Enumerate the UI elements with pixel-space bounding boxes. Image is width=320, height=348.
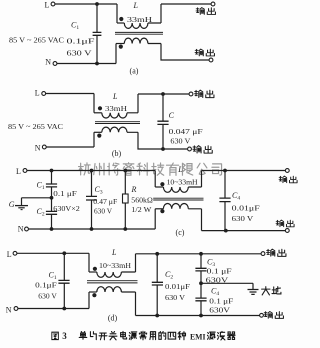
svg-text:L: L: [7, 250, 12, 259]
svg-text:0.1 μF: 0.1 μF: [209, 296, 233, 305]
svg-text:N: N: [35, 143, 41, 152]
svg-text:0.1μF: 0.1μF: [35, 281, 57, 290]
svg-text:0.1 μF: 0.1 μF: [53, 189, 77, 198]
svg-text:630 V: 630 V: [165, 293, 186, 302]
svg-text:EMI: EMI: [190, 332, 206, 342]
svg-text:85 V ~ 265 VAC: 85 V ~ 265 VAC: [8, 122, 63, 131]
svg-text:L: L: [16, 167, 21, 176]
svg-text:N: N: [6, 305, 12, 314]
svg-text:(a): (a): [130, 67, 139, 76]
svg-text:N: N: [45, 57, 51, 66]
svg-text:L: L: [177, 165, 183, 174]
svg-text:0.01μF: 0.01μF: [232, 204, 260, 213]
svg-text:(c): (c): [176, 228, 185, 237]
svg-text:0.01μF: 0.01μF: [165, 282, 190, 291]
svg-text:560kΩ: 560kΩ: [131, 195, 153, 204]
svg-text:10~33mH: 10~33mH: [167, 178, 199, 187]
svg-text:L: L: [35, 89, 40, 98]
svg-text:(d): (d): [108, 313, 118, 322]
svg-text:0.47 μF: 0.47 μF: [93, 197, 117, 206]
svg-text:(b): (b): [112, 149, 122, 158]
svg-text:L: L: [133, 1, 139, 10]
svg-text:85 V ~ 265 VAC: 85 V ~ 265 VAC: [9, 36, 64, 45]
svg-text:L: L: [45, 1, 50, 10]
svg-text:630V: 630V: [209, 306, 230, 315]
svg-text:0.1 μF: 0.1 μF: [207, 267, 232, 276]
svg-text:C: C: [169, 111, 175, 120]
svg-text:630 V: 630 V: [38, 292, 57, 301]
svg-text:3: 3: [62, 331, 67, 341]
svg-text:33mH: 33mH: [105, 104, 128, 113]
svg-text:630V×2: 630V×2: [53, 204, 80, 213]
svg-text:33mH: 33mH: [127, 15, 153, 24]
svg-text:N: N: [18, 224, 24, 233]
svg-text:0.047 μF: 0.047 μF: [169, 127, 203, 136]
svg-text:630 V: 630 V: [94, 207, 113, 216]
svg-text:R: R: [131, 185, 137, 194]
svg-text:G: G: [9, 200, 15, 209]
svg-text:1/2 W: 1/2 W: [131, 205, 152, 214]
svg-text:10~33mH: 10~33mH: [99, 261, 132, 270]
svg-text:630 V: 630 V: [170, 137, 191, 146]
svg-text:L: L: [112, 92, 118, 101]
svg-text:630 V: 630 V: [67, 48, 93, 57]
svg-text:L: L: [111, 248, 117, 257]
svg-text:630 V: 630 V: [232, 214, 254, 223]
svg-text:630V: 630V: [206, 276, 229, 285]
svg-text:0.1μF: 0.1μF: [67, 36, 95, 45]
